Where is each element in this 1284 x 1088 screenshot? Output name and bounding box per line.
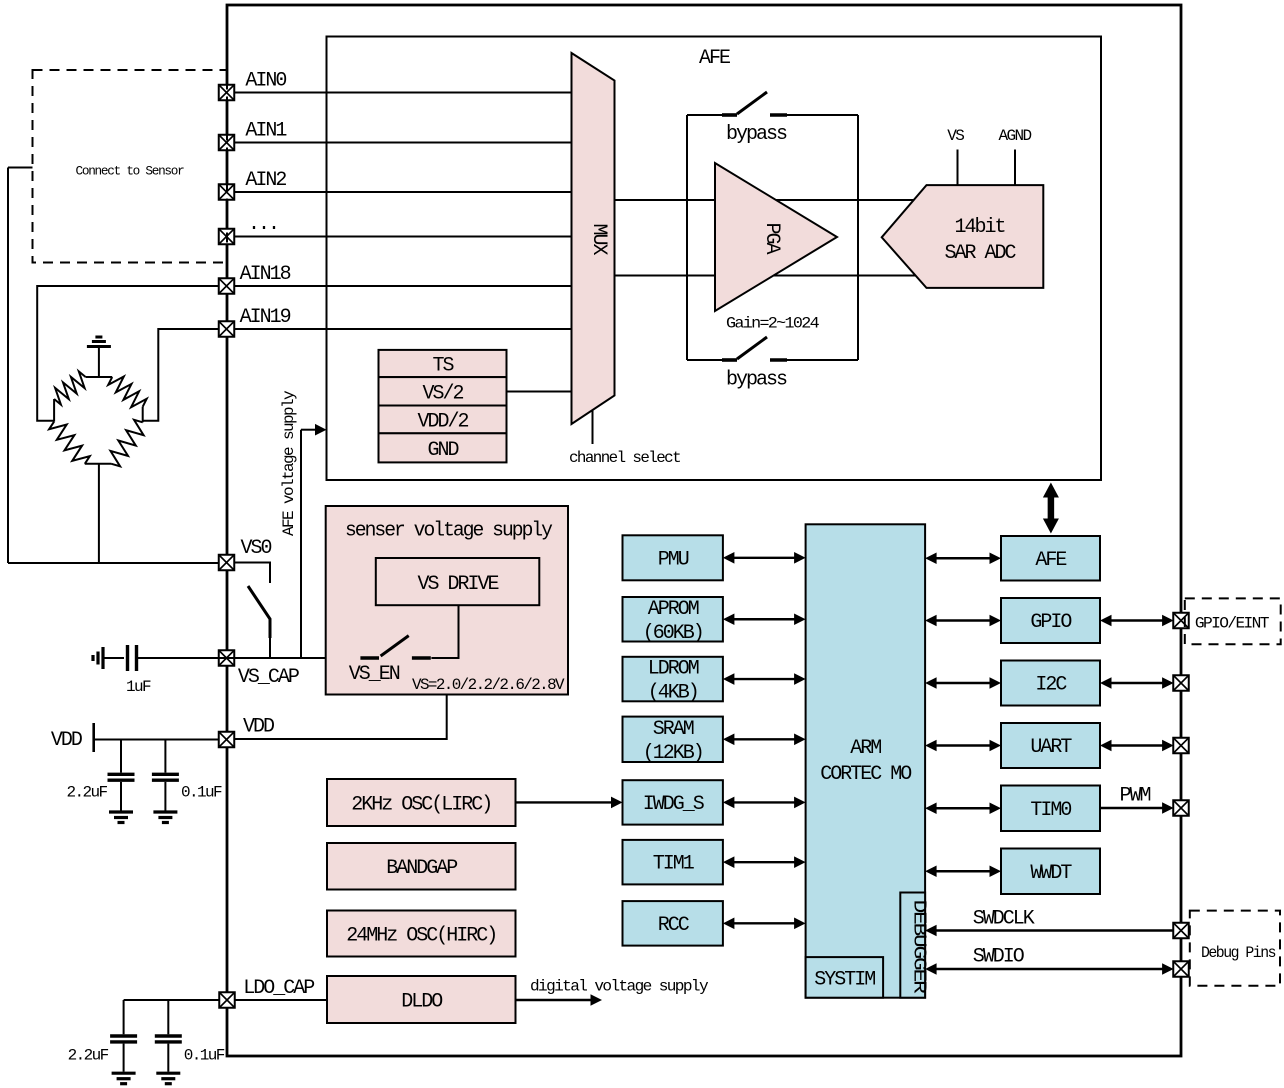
label 24MHz OSC [346, 925, 496, 948]
label UART [1030, 736, 1072, 759]
label SRAM [643, 718, 703, 765]
label PWM [1120, 785, 1151, 808]
label SWDIO [973, 946, 1024, 969]
label VDD rail [51, 729, 82, 752]
label channel select [569, 449, 680, 467]
reference source table [379, 350, 507, 463]
block BANDGAP [327, 843, 516, 890]
svg-text:VS=2.0/2.2/2.6/2.8V: VS=2.0/2.2/2.6/2.8V [412, 676, 565, 694]
block DLDO [327, 976, 516, 1023]
arrow SRAM - CPU [723, 734, 806, 746]
pin AIN... [219, 229, 235, 245]
svg-text:AIN0: AIN0 [245, 70, 286, 93]
label AFE [1035, 549, 1066, 572]
label DLDO [401, 991, 442, 1014]
label TIM0 [1030, 799, 1071, 822]
resistor bridge bottom-left [49, 422, 90, 464]
wire SWDCLK [925, 925, 1173, 937]
wire bridge bottom to VS0 line [98, 464, 100, 563]
wire AIN0 to MUX [234, 92, 572, 94]
label DEBUGGER [909, 900, 929, 995]
pin AIN1 [219, 135, 235, 151]
ground above bridge [87, 337, 111, 377]
svg-text:AFE voltage supply: AFE voltage supply [280, 390, 298, 536]
label VS DRIVE [417, 573, 498, 596]
svg-text:VS DRIVE: VS DRIVE [417, 573, 498, 596]
pin GPIO/EINT [1173, 613, 1189, 629]
svg-text:2.2uF: 2.2uF [68, 1047, 109, 1065]
arrow I2C - pin [1100, 677, 1174, 689]
senser voltage supply box [326, 506, 568, 695]
arrow GPIO - pin [1100, 615, 1174, 627]
svg-text:2KHz OSC(LIRC): 2KHz OSC(LIRC) [351, 794, 491, 817]
ADC 14bit SAR [882, 185, 1044, 288]
wire bypass top right [787, 114, 858, 116]
pin AIN19 [219, 321, 235, 337]
block 2KHz OSC LIRC [327, 779, 516, 826]
wire AIN1 to MUX [234, 142, 572, 144]
label SAR ADC [944, 242, 1016, 265]
svg-text:VS_CAP: VS_CAP [238, 666, 299, 689]
arrow AFE voltage supply [301, 424, 327, 436]
label VS [947, 127, 964, 145]
pin I2C [1173, 675, 1189, 691]
label 0.1uF bottom [184, 1047, 225, 1065]
arrow RCC - CPU [723, 918, 806, 930]
arrow CPU - I2C [925, 677, 1001, 689]
ground C3 [112, 1073, 136, 1084]
label ... [248, 217, 278, 240]
dashed box GPIO/EINT [1185, 598, 1281, 644]
block IWDG_S [623, 780, 723, 824]
svg-text:14bit: 14bit [954, 216, 1004, 239]
pin UART [1173, 738, 1189, 754]
label bypass top [726, 123, 787, 146]
svg-text:PWM: PWM [1120, 785, 1151, 808]
svg-text:AIN2: AIN2 [245, 169, 286, 192]
block LDROM [623, 657, 723, 702]
pin AIN2 [219, 184, 235, 200]
label AFE voltage supply [280, 390, 298, 536]
block GPIO [1001, 598, 1100, 643]
arrow APROM - CPU [723, 613, 806, 625]
block UART [1001, 723, 1100, 768]
block TIM0 [1001, 786, 1100, 832]
svg-text:PGA: PGA [760, 222, 783, 254]
bridge right cap [142, 407, 144, 423]
wire sensor box stub [8, 167, 33, 169]
label 2.2uF top [67, 784, 108, 802]
svg-text:VDD: VDD [51, 729, 82, 752]
svg-text:TIM0: TIM0 [1030, 799, 1071, 822]
svg-text:IWDG_S: IWDG_S [643, 793, 705, 816]
arrow TIM1 - CPU [723, 856, 806, 868]
svg-text:TIM1: TIM1 [653, 853, 695, 876]
block DEBUGGER [900, 893, 925, 998]
svg-text:channel select: channel select [569, 449, 680, 467]
svg-text:CORTEC MO: CORTEC MO [820, 763, 911, 786]
label APROM [643, 598, 703, 645]
label GND [427, 439, 458, 462]
arrow CPU - AFE [925, 552, 1001, 564]
block SYSTIM [806, 957, 884, 998]
AFE block box [327, 37, 1102, 481]
svg-text:WWDT: WWDT [1030, 862, 1072, 885]
block 24MHz OSC HIRC [327, 911, 516, 957]
svg-text:VS/2: VS/2 [422, 383, 463, 406]
wire VS stub [957, 150, 959, 186]
arrow LDROM - CPU [723, 673, 806, 685]
wire VS DRIVE output [431, 605, 458, 658]
label LDROM [648, 658, 699, 705]
arrow CPU - GPIO [925, 615, 1001, 627]
svg-text:(4KB): (4KB) [648, 682, 698, 705]
MUX trapezoid [572, 53, 615, 424]
wire SWDIO [925, 963, 1174, 975]
pin PWM [1173, 800, 1189, 816]
wire bypass bottom right [787, 359, 858, 361]
arrow CPU - UART [925, 740, 1001, 752]
svg-text:TS: TS [432, 355, 454, 378]
svg-text:(12KB): (12KB) [643, 742, 703, 765]
label bypass bottom [726, 369, 787, 392]
label AFE [699, 47, 730, 70]
wire AIN19 to MUX [234, 328, 572, 330]
svg-text:UART: UART [1030, 736, 1072, 759]
wire AIN... to MUX [234, 236, 572, 238]
svg-text:I2C: I2C [1035, 674, 1067, 697]
ground C 0.1uF [153, 812, 177, 823]
label digital voltage supply [530, 978, 709, 996]
label VS0 [241, 537, 272, 560]
capacitor 1uF [93, 645, 137, 671]
wire VS0 stub [234, 563, 270, 584]
label LDO_CAP [243, 977, 314, 1000]
chip outer boundary box [227, 5, 1181, 1056]
label GPIO [1030, 611, 1071, 634]
svg-text:24MHz OSC(HIRC): 24MHz OSC(HIRC) [346, 925, 496, 948]
bridge bottom cap [85, 463, 112, 465]
capacitor C 0.1uF [152, 740, 179, 811]
svg-text:SWDIO: SWDIO [973, 946, 1024, 969]
pin VS_CAP [219, 650, 235, 666]
svg-text:VS0: VS0 [241, 537, 272, 560]
label SWDCLK [973, 908, 1035, 931]
svg-text:VS_EN: VS_EN [349, 663, 400, 686]
svg-text:DLDO: DLDO [401, 991, 442, 1014]
svg-text:PMU: PMU [658, 548, 689, 571]
pin VDD [219, 732, 235, 748]
svg-text:DEBUGGER: DEBUGGER [909, 900, 929, 995]
wire signal lower [615, 275, 951, 277]
wire LDO_CAP left [124, 999, 220, 1001]
label WWDT [1030, 862, 1072, 885]
svg-text:VDD/2: VDD/2 [417, 411, 468, 434]
svg-text:SYSTIM: SYSTIM [814, 969, 875, 992]
label 2.2uF bottom [68, 1047, 109, 1065]
pin AIN18 [219, 278, 235, 294]
label AGND [998, 127, 1031, 145]
arrow CPU - TIM0 [925, 802, 1001, 814]
pin AIN0 [219, 85, 235, 101]
wire bypass left vertical [686, 115, 688, 360]
wire AIN18 to MUX [234, 285, 572, 287]
svg-text:AFE: AFE [1035, 549, 1066, 572]
switch VS0 lever [248, 586, 270, 638]
block AFE [1001, 536, 1100, 581]
wire VS_CAP horizontal [138, 657, 360, 659]
label VS_CAP [238, 666, 299, 689]
dashed box Debug Pins [1190, 911, 1280, 986]
label 14bit [954, 216, 1004, 239]
label VS_EN [349, 663, 400, 686]
label VDD/2 [417, 411, 468, 434]
svg-text:VS: VS [947, 127, 964, 145]
wire AIN19 to bridge right [143, 329, 219, 421]
label PMU [658, 548, 689, 571]
svg-text:BANDGAP: BANDGAP [386, 857, 457, 880]
svg-text:AGND: AGND [998, 127, 1031, 145]
label PGA [760, 222, 783, 254]
svg-text:SWDCLK: SWDCLK [973, 908, 1035, 931]
svg-text:SAR ADC: SAR ADC [944, 242, 1016, 265]
svg-text:0.1uF: 0.1uF [184, 1047, 225, 1065]
block TIM1 [623, 840, 723, 885]
switch bypass top [722, 92, 787, 115]
VS DRIVE box [376, 558, 540, 605]
svg-text:MUX: MUX [587, 223, 610, 255]
wire channel select stub [592, 411, 594, 445]
label Connect to Sensor [76, 164, 184, 179]
label TIM1 [653, 853, 695, 876]
label BANDGAP [386, 857, 457, 880]
arrow LIRC to IWDG_S [516, 797, 623, 809]
pin SWDIO [1173, 961, 1189, 977]
wire table to MUX [507, 391, 572, 393]
svg-text:LDROM: LDROM [648, 658, 699, 681]
pin LDO_CAP [219, 992, 235, 1008]
svg-text:bypass: bypass [726, 123, 787, 146]
label 1uF [126, 678, 151, 696]
svg-text:VDD: VDD [243, 716, 274, 739]
wire VDD rail [94, 739, 219, 741]
bridge top cap [86, 376, 113, 378]
wire AIN18 to bridge left [37, 286, 219, 421]
wire LDO_CAP to DLDO [235, 999, 328, 1001]
block SRAM [623, 717, 723, 762]
wire TIM0 PWM [1100, 802, 1174, 814]
arrow DLDO out [516, 994, 603, 1006]
block APROM [623, 597, 723, 642]
ground C 2.2uF [109, 812, 133, 823]
capacitor C4 0.1uF [155, 1000, 182, 1072]
label RCC [658, 914, 690, 937]
block I2C [1001, 661, 1100, 706]
block ARM CORTEC M0 [806, 524, 926, 997]
svg-text:SRAM: SRAM [653, 718, 694, 741]
pin SWDCLK [1173, 923, 1189, 939]
block WWDT [1001, 849, 1100, 895]
label IWDG_S [643, 793, 705, 816]
svg-text:AIN19: AIN19 [240, 306, 291, 329]
label VDD pin [243, 716, 274, 739]
wire signal upper [615, 199, 951, 201]
wire bypass bottom left [687, 359, 722, 361]
label GPIO/EINT [1195, 615, 1269, 633]
label 0.1uF top [181, 784, 222, 802]
label SYSTIM [814, 969, 875, 992]
ground C4 [156, 1073, 180, 1084]
svg-text:GND: GND [427, 439, 458, 462]
switch VS_EN [360, 636, 430, 658]
label AIN0 [245, 70, 286, 93]
label VS value [412, 676, 565, 694]
wire sensor left vertical [7, 168, 9, 564]
label VS/2 [422, 383, 463, 406]
label AIN2 [245, 169, 286, 192]
svg-text:GPIO: GPIO [1030, 611, 1071, 634]
svg-text:(60KB): (60KB) [643, 622, 703, 645]
label Gain [726, 315, 819, 333]
arrow UART - pin [1100, 740, 1174, 752]
svg-text:Connect to Sensor: Connect to Sensor [76, 164, 184, 179]
wire VS supply to VDD line [234, 695, 447, 740]
arrow PMU - CPU [723, 552, 806, 564]
arrow AFE block link [1043, 483, 1059, 534]
arrow IWDG_S - CPU [723, 797, 806, 809]
svg-text:AFE: AFE [699, 47, 730, 70]
svg-text:GPIO/EINT: GPIO/EINT [1195, 615, 1269, 633]
VDD terminal [92, 723, 95, 752]
svg-text:APROM: APROM [648, 598, 699, 621]
svg-text:0.1uF: 0.1uF [181, 784, 222, 802]
svg-text:AIN18: AIN18 [240, 263, 291, 286]
resistor bridge top-right [108, 377, 147, 408]
svg-text:digital voltage supply: digital voltage supply [530, 978, 709, 996]
wire bypass right vertical [857, 115, 859, 360]
label AIN19 [240, 306, 291, 329]
capacitor C 2.2uF [108, 740, 135, 811]
wire bypass top left [687, 114, 722, 116]
svg-text:ARM: ARM [850, 737, 881, 760]
label 2KHz OSC [351, 794, 491, 817]
label AIN18 [240, 263, 291, 286]
svg-text:1uF: 1uF [126, 678, 151, 696]
svg-text:AIN1: AIN1 [245, 120, 287, 143]
label I2C [1035, 674, 1067, 697]
resistor bridge top-left [54, 371, 86, 404]
wire AFE voltage supply vertical [300, 430, 302, 658]
op-amp PGA [715, 163, 837, 311]
label AIN1 [245, 120, 287, 143]
wire switch to VS_CAP [269, 638, 271, 658]
label MUX [587, 223, 610, 255]
svg-text:Gain=2~1024: Gain=2~1024 [726, 315, 819, 333]
svg-text:···: ··· [248, 217, 278, 240]
svg-text:RCC: RCC [658, 914, 690, 937]
switch bypass bottom [722, 337, 787, 360]
svg-text:2.2uF: 2.2uF [67, 784, 108, 802]
bridge left cap [53, 399, 55, 422]
label senser voltage supply [345, 520, 553, 543]
pin VS0 [219, 555, 235, 571]
svg-text:senser voltage supply: senser voltage supply [345, 520, 553, 543]
svg-text:LDO_CAP: LDO_CAP [243, 977, 314, 1000]
svg-text:bypass: bypass [726, 369, 787, 392]
arrow CPU - WWDT [925, 865, 1001, 877]
label TS [432, 355, 454, 378]
capacitor C3 2.2uF [110, 1000, 137, 1072]
wire AIN2 to MUX [234, 191, 572, 193]
svg-text:Debug Pins: Debug Pins [1201, 944, 1276, 962]
wire AGND stub [1014, 150, 1016, 186]
label ARM [820, 737, 911, 786]
wire VS0 horizontal [8, 562, 219, 564]
block RCC [623, 901, 723, 946]
dashed box Connect to Sensor [33, 70, 228, 263]
label Debug Pins [1201, 944, 1276, 962]
resistor bridge bottom-right [111, 420, 144, 467]
block PMU [623, 535, 723, 580]
